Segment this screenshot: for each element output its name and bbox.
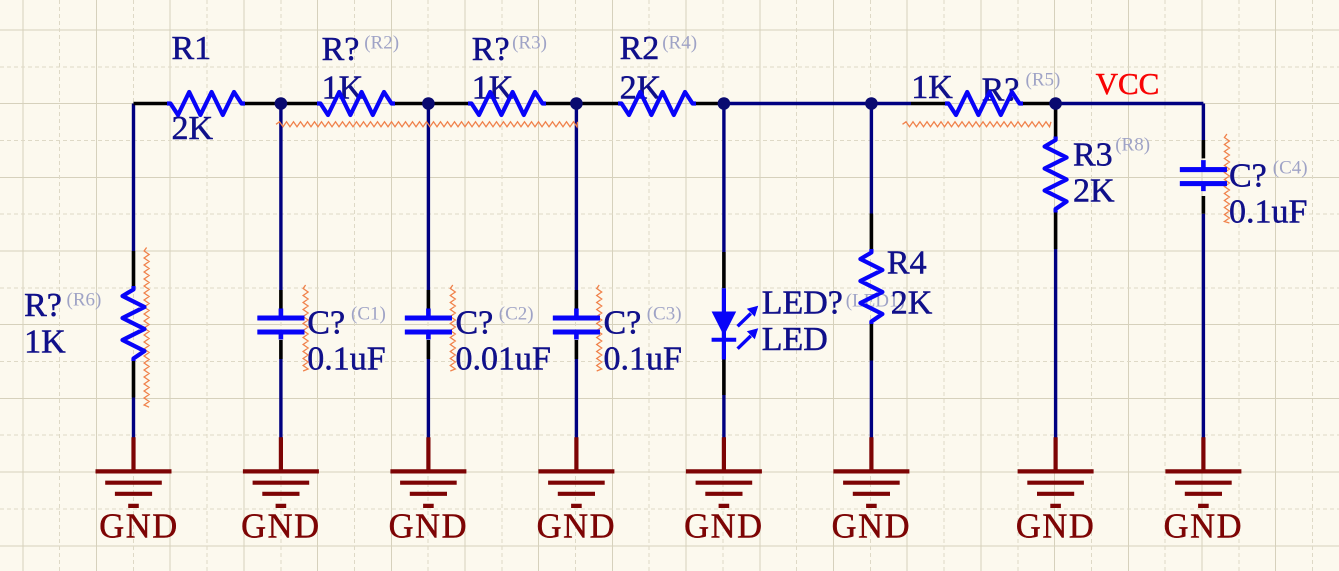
svg-text:0.01uF: 0.01uF (456, 341, 551, 378)
svg-text:(R5): (R5) (1026, 70, 1061, 91)
svg-text:(C4): (C4) (1273, 158, 1308, 179)
svg-text:1K: 1K (24, 324, 66, 361)
svg-text:LED?: LED? (762, 285, 843, 322)
svg-text:GND: GND (1016, 507, 1096, 545)
svg-text:R1: R1 (172, 30, 212, 67)
svg-text:C?: C? (456, 305, 494, 342)
svg-text:R2: R2 (620, 30, 660, 67)
svg-text:(R6): (R6) (67, 290, 102, 311)
svg-text:R?: R? (472, 31, 510, 68)
svg-text:2K: 2K (1073, 173, 1115, 210)
svg-text:GND: GND (1164, 507, 1244, 545)
svg-text:(C2): (C2) (499, 304, 534, 325)
svg-text:(R8): (R8) (1115, 135, 1150, 156)
svg-text:GND: GND (241, 507, 321, 545)
svg-text:GND: GND (389, 507, 469, 545)
svg-text:(R4): (R4) (662, 33, 697, 54)
svg-text:2K: 2K (891, 285, 933, 322)
svg-text:GND: GND (537, 507, 617, 545)
svg-text:R?: R? (322, 31, 360, 68)
svg-text:VCC: VCC (1096, 66, 1160, 101)
svg-text:LED: LED (762, 321, 828, 358)
svg-text:R3: R3 (1073, 137, 1113, 174)
svg-text:C?: C? (604, 305, 642, 342)
svg-text:(C3): (C3) (647, 304, 682, 325)
svg-text:(R3): (R3) (512, 33, 547, 54)
svg-text:R?: R? (24, 287, 62, 324)
svg-text:2K: 2K (620, 70, 662, 107)
svg-text:0.1uF: 0.1uF (1229, 193, 1307, 230)
svg-text:GND: GND (99, 507, 179, 545)
svg-text:(C1): (C1) (351, 304, 386, 325)
svg-text:1K: 1K (911, 69, 953, 106)
svg-text:0.1uF: 0.1uF (604, 341, 682, 378)
svg-text:C?: C? (307, 305, 345, 342)
svg-text:0.1uF: 0.1uF (307, 341, 385, 378)
svg-text:GND: GND (832, 507, 912, 545)
svg-text:(R2): (R2) (364, 33, 399, 54)
svg-text:GND: GND (684, 507, 764, 545)
svg-text:R4: R4 (887, 245, 927, 282)
svg-text:C?: C? (1229, 157, 1267, 194)
svg-text:R?: R? (982, 72, 1020, 109)
